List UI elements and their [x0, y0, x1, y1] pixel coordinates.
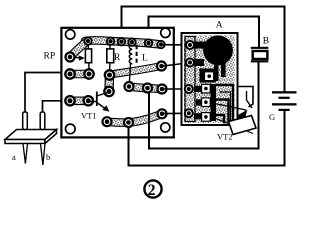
- crystal B bottom plate: [251, 60, 268, 62]
- battery G plate long 2: [272, 103, 297, 105]
- pad (70,57): [66, 53, 75, 62]
- wire B loop vertical over PCB redrawn: [148, 89, 150, 139]
- nested trace L2: [216, 100, 229, 124]
- trace vertical blob under R: [104, 75, 114, 92]
- wire bottom rail stub over pad: [128, 122, 130, 138]
- VT2 arrowhead: [237, 110, 248, 123]
- strip pad 4: [185, 109, 193, 117]
- plug needle a: [23, 144, 28, 164]
- pad (162,113.8): [158, 109, 167, 118]
- trace diagonal RP top: [70, 41, 88, 57]
- pad (109,91.5): [104, 87, 113, 96]
- resistor RP body: [85, 49, 91, 63]
- strip pad 2: [186, 59, 194, 67]
- VT2 emitter diagonal: [212, 117, 253, 134]
- trace top band: [85, 40, 161, 44]
- nested trace L1: [216, 85, 233, 124]
- trace mid band to right edge: [110, 66, 162, 75]
- nested trace L4: [220, 92, 231, 124]
- resistor RP leads: [87, 43, 89, 49]
- wire plug pin b to PCB: [43, 101, 67, 112]
- pad (161,44.5): [157, 41, 164, 48]
- pad (107,121.7): [103, 117, 112, 126]
- plug plate top face: [5, 130, 57, 140]
- pad (148.5,43): [145, 39, 152, 46]
- figure number 2 circled: [144, 180, 161, 198]
- wire PCB to box A pin1: [163, 44, 187, 46]
- svg-text:B: B: [263, 36, 269, 46]
- resistor R body: [107, 49, 114, 63]
- mic leads below: [214, 62, 219, 81]
- VT2 lead kink: [247, 91, 253, 108]
- VT2 lead diagonal from pad: [212, 103, 246, 110]
- mic square pad: [205, 72, 214, 81]
- box A copper background: [184, 36, 235, 124]
- pad (88,41): [84, 37, 91, 44]
- wire battery plus net: pad to top rail to battery: [122, 7, 285, 92]
- trace mid-low row: [129, 87, 162, 90]
- pad (70,100.8): [65, 96, 74, 105]
- box A trace pad2 right: [193, 59, 204, 66]
- pad (147.5,88): [143, 84, 152, 93]
- pad (128.5,122.5): [124, 118, 133, 127]
- trace pair a: [70, 70, 89, 79]
- resistor R leads: [109, 43, 112, 49]
- svg-text:G: G: [269, 112, 275, 122]
- wire PCB to box A pin4: [164, 112, 186, 114]
- plug pin b upper: [40, 112, 45, 130]
- pad (109,41.3): [107, 38, 114, 45]
- box A top trace: [193, 42, 206, 49]
- middle square pad 1: [202, 84, 211, 93]
- pad (70,74): [65, 69, 74, 78]
- nested trace L3: [216, 115, 224, 124]
- plug plate front face: [5, 140, 45, 144]
- hole bottom-right: [161, 123, 170, 132]
- crystal B body: [253, 51, 268, 59]
- plug plate right face: [45, 130, 57, 144]
- svg-text:b: b: [46, 152, 50, 162]
- wire battery minus bottom rail: [129, 111, 285, 166]
- svg-text:RP: RP: [44, 52, 56, 62]
- wire B top net: pad to B crystal: [149, 17, 260, 48]
- pad (161.5,66): [157, 62, 166, 71]
- svg-text:VT2: VT2: [217, 132, 233, 142]
- hole top-right: [161, 28, 170, 37]
- pad (109.5,75): [105, 70, 114, 79]
- RP wiper arrow: [72, 56, 81, 59]
- hole top-left: [66, 30, 75, 39]
- pad (129,86.5): [125, 82, 134, 91]
- battery G plate long 1: [272, 91, 297, 93]
- VT2 hook wire: [238, 87, 253, 108]
- middle square pad 2: [202, 98, 211, 107]
- strip pad 3: [185, 85, 193, 93]
- pad (162,89): [158, 85, 167, 94]
- middle trace column: [211, 84, 217, 121]
- svg-text:A: A: [216, 20, 223, 30]
- pad (88.3,100.8): [84, 96, 93, 105]
- inductor L core dashes: [136, 45, 138, 64]
- svg-text:a: a: [12, 152, 16, 162]
- trace bottom row: [107, 114, 162, 123]
- inductor L coil: [129, 45, 132, 64]
- pad (131.5,42): [128, 39, 135, 46]
- crystal B top plate: [251, 47, 268, 49]
- strip pad 1: [186, 41, 194, 49]
- svg-text:L: L: [142, 54, 148, 64]
- inductor L leads: [131, 42, 133, 45]
- battery G plate short 1: [279, 97, 290, 99]
- plug pin a upper: [23, 112, 28, 130]
- plug needle b: [41, 144, 46, 166]
- battery G plate short 2: [279, 109, 290, 111]
- pad (120,41.6): [118, 38, 125, 45]
- pad (89,74): [84, 69, 93, 78]
- svg-text:R: R: [114, 53, 121, 63]
- electret microphone: [203, 35, 233, 65]
- wire PCB to box A pin2: [164, 63, 188, 66]
- box A copper strip: [185, 37, 195, 122]
- box A: [182, 33, 238, 125]
- hole bottom-left: [66, 124, 76, 134]
- PCB board: [61, 28, 173, 138]
- VT2 body parallelogram: [229, 116, 257, 135]
- middle square pad 3: [202, 113, 211, 122]
- wire B bottom return loop to PCB pad: [149, 62, 259, 149]
- wire PCB to box A pin3: [164, 88, 186, 90]
- svg-text:VT1: VT1: [81, 111, 97, 121]
- trace pair b: [70, 97, 88, 106]
- svg-text:2: 2: [148, 182, 156, 199]
- wire plug pin a to PCB: [25, 73, 66, 113]
- mic pad block: [200, 69, 216, 83]
- transistor VT1: [89, 92, 110, 112]
